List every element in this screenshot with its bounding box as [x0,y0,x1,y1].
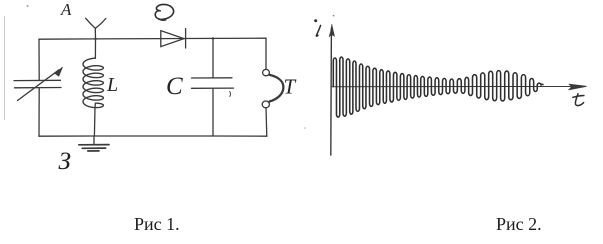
inductor L coil [83,58,103,107]
axes Ris2 [329,24,587,156]
wire bottom [39,135,267,137]
svg-text:З: З [59,148,71,175]
wire C branch [212,38,214,136]
antenna A [86,18,106,39]
label D [155,4,173,20]
wire left [38,39,40,136]
waveform i(t) [333,57,543,117]
wire top [39,38,266,39]
label t [573,94,584,106]
speck artifacts [27,5,29,7]
label i [314,19,320,36]
svg-text:T: T [284,75,297,99]
capacitor C [192,78,234,97]
diode D [161,29,186,48]
svg-text:A: A [60,0,72,19]
wire right [265,38,268,136]
caption Ris 2 [496,214,542,235]
t axis [331,86,585,88]
svg-text:C: C [166,73,183,100]
junction dot antenna [94,38,96,40]
caption Ris 1 [134,214,180,235]
wire coil to bottom [94,103,95,136]
junction dot C branch [212,37,214,39]
variable capacitor [14,67,63,101]
telephone T [262,69,283,107]
ground [79,136,109,151]
svg-text:L: L [106,74,118,96]
wire antenna to coil [94,39,96,58]
i axis [330,28,333,156]
